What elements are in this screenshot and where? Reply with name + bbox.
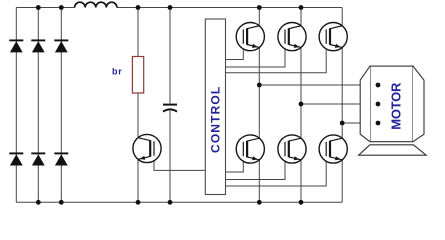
diode D2 (upper middle)	[31, 40, 45, 52]
wire Q3 source to node C	[341, 47, 343, 123]
resistor br body	[132, 57, 143, 94]
node bottom rail junction Q4	[257, 200, 262, 205]
transistor Q6 (inverter bottom phase C)	[319, 135, 347, 163]
wire gate line to Q1	[226, 44, 244, 60]
transistor Q1 (inverter top phase A)	[236, 22, 264, 50]
transistor Q4 (inverter bottom phase A)	[236, 135, 264, 163]
node top rail junction x38	[36, 5, 41, 10]
node A phase junction	[257, 83, 262, 88]
wire resistor to chopper transistor	[137, 93, 139, 138]
node bottom rail junction Q5	[299, 200, 304, 205]
wire Q2 source to node B	[300, 47, 302, 104]
wire Q6 emitter to bottom rail	[341, 159, 343, 202]
diode D1 (upper left)	[9, 40, 23, 52]
diode D5 (lower middle)	[31, 153, 45, 165]
wire top DC+ rail left segment	[16, 7, 74, 9]
wire Q3 drain from rail	[341, 8, 343, 27]
wire gate line to Q4	[226, 156, 244, 172]
wire node A to Q4 drain	[258, 85, 260, 139]
node top rail junction Q2	[299, 5, 304, 10]
node top rail junction x61	[59, 5, 64, 10]
wire gate line to Q3	[226, 44, 327, 73]
diode D6 (lower right)	[54, 153, 68, 165]
wire phase C to motor	[342, 122, 378, 124]
diode D3 (upper right)	[54, 40, 68, 52]
node top rail junction capacitor branch	[168, 5, 173, 10]
node bottom rail junction x38	[36, 200, 41, 205]
wire phase B to motor	[301, 103, 378, 105]
capacitor C1 (DC link)	[163, 105, 177, 112]
svg-text:MOTOR: MOTOR	[388, 82, 403, 130]
node C phase junction	[340, 121, 345, 126]
wire gate line to Q5	[226, 156, 286, 179]
node motor terminal C	[376, 121, 381, 126]
transistor Q3 (inverter top phase C)	[319, 22, 347, 50]
node bottom rail junction x61	[59, 200, 64, 205]
wire Q4 emitter to bottom rail	[258, 159, 260, 202]
wire phase A to motor	[259, 84, 378, 86]
svg-text:CONTROL: CONTROL	[208, 86, 222, 153]
wire DC bus capacitor branch top	[169, 8, 171, 104]
node top rail junction Q1	[257, 5, 262, 10]
wire rectifier leg 2 (vertical)	[37, 8, 39, 203]
node motor terminal B	[376, 102, 381, 107]
wire Q5 emitter to bottom rail	[300, 159, 302, 202]
transistor Q5 (inverter bottom phase B)	[278, 135, 306, 163]
wire node C to Q6 drain	[341, 123, 343, 139]
motor body	[360, 66, 424, 142]
wire braking resistor branch top	[137, 8, 139, 57]
node motor terminal A	[376, 83, 381, 88]
control unit box U1	[205, 19, 225, 195]
motor stand	[359, 145, 427, 155]
svg-text:br: br	[112, 67, 123, 77]
wire gate line to Q2	[226, 44, 286, 67]
wire node B to Q5 drain	[300, 104, 302, 139]
inductor L (DC link choke)	[75, 2, 117, 7]
diode D4 (lower left)	[9, 153, 23, 165]
wire capacitor branch bottom	[169, 111, 171, 203]
node B phase junction	[299, 102, 304, 107]
wire Q1 drain from rail	[258, 8, 260, 27]
wire chopper emitter to bottom rail	[137, 159, 139, 202]
wire chopper gate to control	[154, 156, 205, 171]
node bottom rail junction capacitor	[168, 200, 173, 205]
wire Q2 drain from rail	[300, 8, 302, 27]
node top rail junction resistor branch	[136, 5, 141, 10]
wire top DC+ rail right segment	[117, 7, 342, 9]
transistor Q2 (inverter top phase B)	[278, 22, 306, 50]
node bottom rail junction chopper	[136, 200, 141, 205]
transistor Q7 brake chopper (mirrored)	[133, 134, 161, 162]
wire rectifier leg 1 (vertical)	[15, 8, 17, 203]
wire bottom DC- rail	[16, 201, 342, 203]
wire Q1 source to node A	[258, 47, 260, 85]
wire gate line to Q6	[226, 156, 327, 186]
wire rectifier leg 3 (vertical)	[60, 8, 62, 203]
